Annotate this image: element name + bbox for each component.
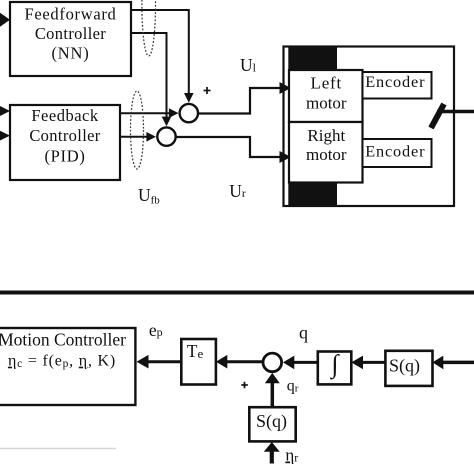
wire: q input from right edge to S(q) (433, 356, 474, 370)
wire: summer S3 to T_e (216, 355, 263, 369)
robot chassis inner line (288, 47, 290, 207)
svg-text:(PID): (PID) (44, 146, 85, 165)
svg-text:Left: Left (311, 73, 343, 92)
svg-text:Motion Controller: Motion Controller (0, 330, 126, 350)
svg-text:Controller: Controller (35, 24, 106, 43)
svg-text:ηc = f(ep, η, K): ηc = f(ep, η, K) (8, 353, 116, 371)
wire: summer S1 to Left motor (U_l) (198, 82, 291, 114)
stray mark (0, 448, 116, 450)
wire: summer S2 to Right motor (U_r) (176, 137, 291, 163)
svg-text:Ufb: Ufb (138, 185, 160, 207)
block: Encoder (left) (363, 72, 432, 99)
svg-text:q: q (299, 323, 308, 343)
plus sign at summer S3 (241, 382, 248, 389)
svg-text:motor: motor (306, 145, 347, 164)
robot body outline (284, 47, 455, 207)
block: Right motor (289, 122, 363, 183)
left wheel (black) (290, 48, 337, 70)
svg-text:Controller: Controller (29, 126, 100, 145)
block: Left motor (289, 70, 363, 122)
input arrow eta_r into S(q) lower (264, 442, 280, 464)
wire: T_e to Motion Controller (137, 355, 182, 369)
input arrow 2 into Feedback Controller (0, 131, 10, 141)
svg-text:Right: Right (307, 126, 345, 145)
wire: feedback top output to summer S1 (120, 108, 179, 118)
block: Encoder (right) (363, 139, 432, 167)
wire: integrator to summer S3 (283, 356, 318, 370)
plus sign at summer S1 (204, 87, 211, 94)
svg-text:(NN): (NN) (51, 44, 89, 63)
svg-text:qr: qr (287, 378, 299, 395)
svg-text:S(q): S(q) (256, 411, 287, 432)
dashed grouping ellipse over feedback wires (131, 91, 144, 169)
svg-text:ep: ep (149, 320, 163, 340)
block: S(q) lower (249, 407, 295, 441)
input arrow 1 into Feedback Controller (0, 106, 10, 116)
input arrow into Feedforward Controller (0, 13, 10, 27)
separator line (0, 291, 474, 295)
wire: S(q) lower to summer S3 (265, 373, 280, 407)
block: T_e (181, 339, 216, 385)
summer S2 (right command) (157, 127, 175, 145)
block: S(q) upper (385, 351, 432, 386)
castor wheel (431, 104, 444, 128)
block: Feedforward Controller (NN) (10, 2, 131, 76)
right wheel (black) (290, 184, 337, 206)
svg-text:S(q): S(q) (389, 356, 420, 377)
dashed grouping ellipse over feedforward wires (142, 0, 156, 56)
block: integrator (318, 349, 352, 384)
wire: feedback bottom output to summer S2 (120, 132, 156, 142)
summer S3 (263, 353, 282, 372)
block: Motion Controller (0, 328, 135, 405)
wire: feedforward top output to summer S1 (131, 10, 194, 103)
block: Feedback Controller (PID) (10, 105, 120, 180)
wire: feedforward bottom output to summer S2 (131, 33, 171, 126)
wire: robot output to right edge (437, 110, 474, 114)
svg-text:Feedback: Feedback (31, 106, 98, 125)
svg-text:Encoder: Encoder (365, 72, 425, 91)
wire: S(q) to integrator (351, 356, 385, 370)
svg-text:Encoder: Encoder (365, 142, 425, 161)
svg-text:motor: motor (306, 93, 347, 112)
svg-text:Feedforward: Feedforward (25, 5, 117, 24)
svg-text:Ur: Ur (229, 181, 246, 201)
summer S1 (left command) (180, 104, 198, 122)
svg-text:Ul: Ul (240, 55, 257, 75)
svg-text:ηr: ηr (285, 446, 298, 465)
